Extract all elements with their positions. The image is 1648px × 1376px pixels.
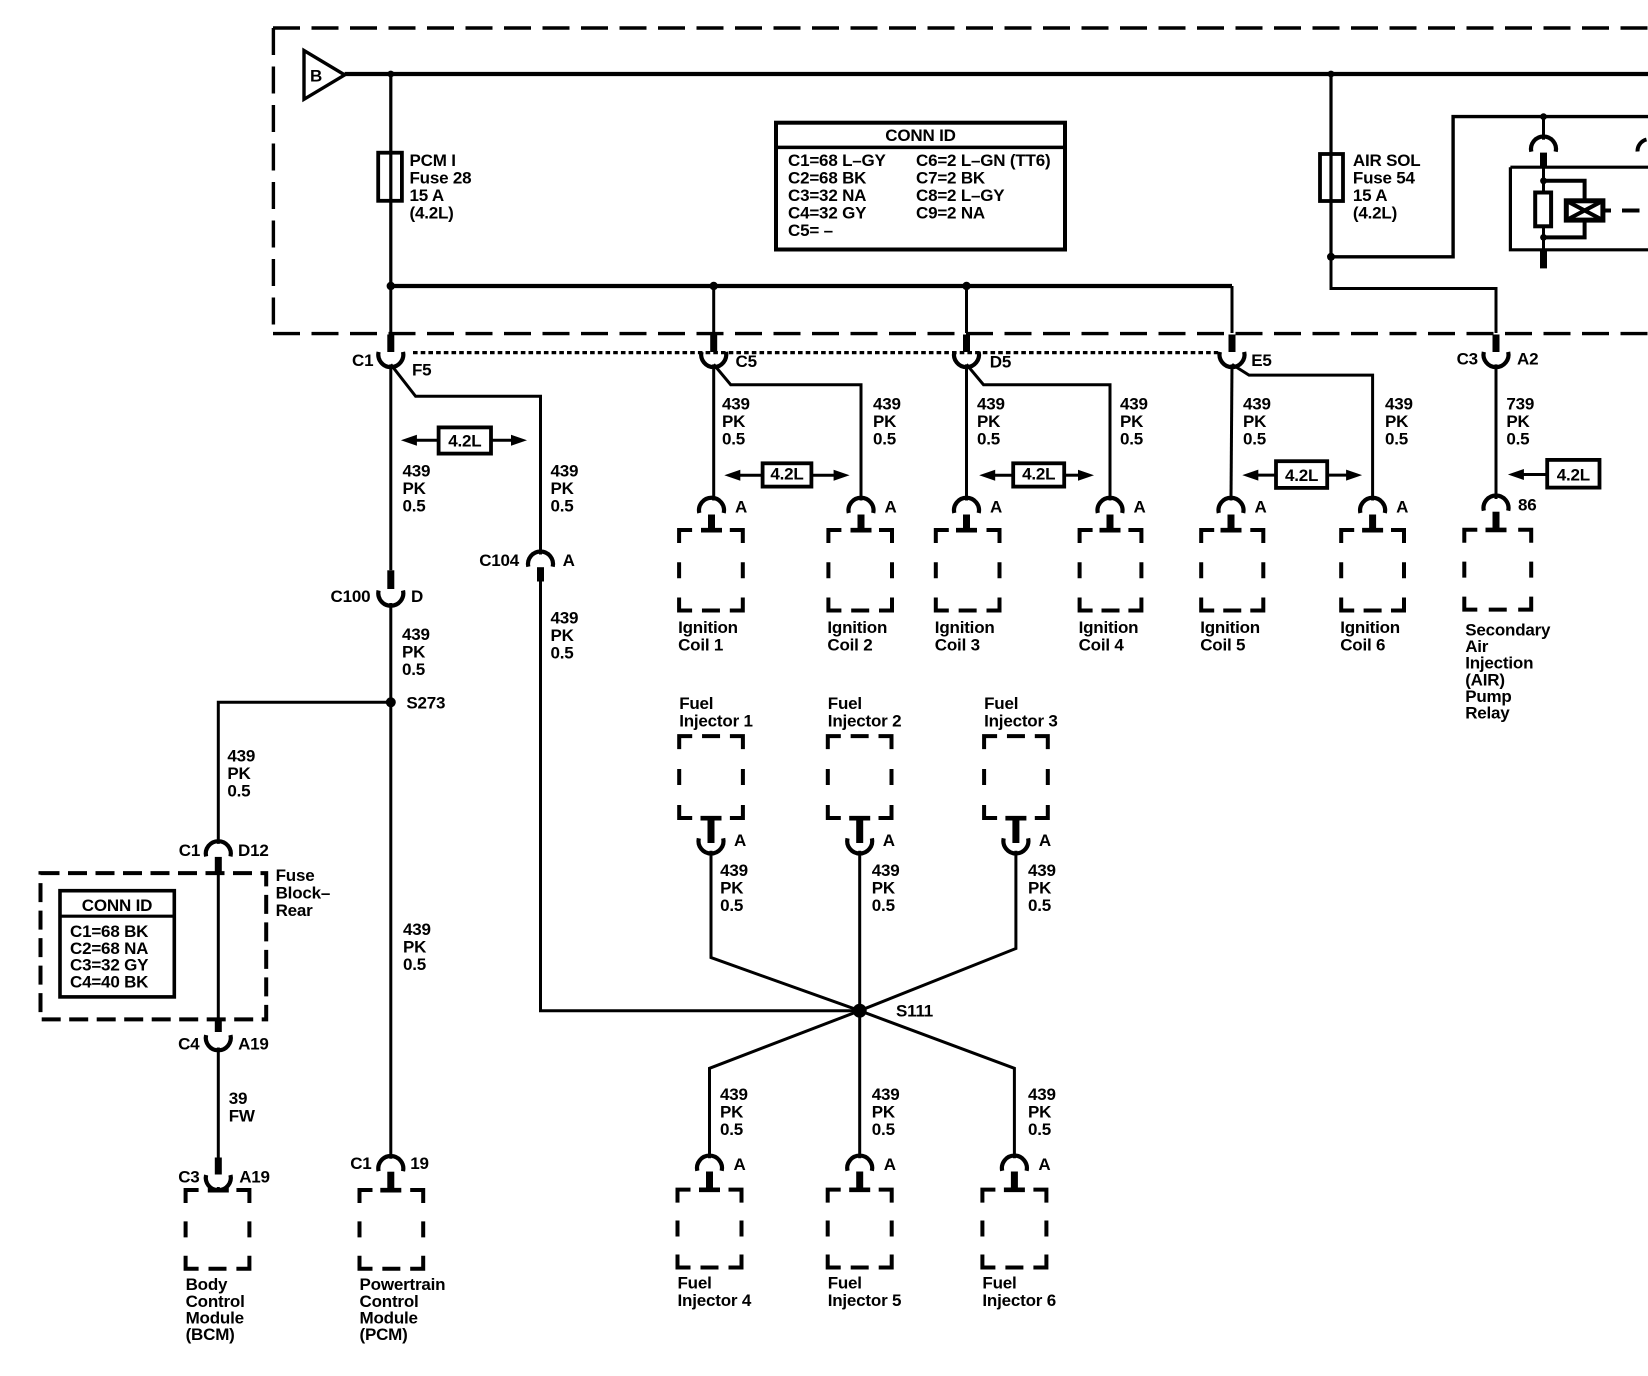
svg-text:0.5: 0.5 xyxy=(403,955,426,974)
svg-text:C3=32 NA: C3=32 NA xyxy=(788,186,866,205)
connector pin A at ignition coil 5 xyxy=(1218,498,1266,517)
svg-text:15 A: 15 A xyxy=(410,186,444,205)
svg-text:PK: PK xyxy=(977,412,1001,431)
label Fuel Injector 2 xyxy=(828,694,902,731)
wire label 439 PK 0.5 (coil 6) xyxy=(1385,395,1413,449)
svg-text:439: 439 xyxy=(402,625,430,644)
svg-text:Fuel: Fuel xyxy=(828,694,862,713)
svg-text:(PCM): (PCM) xyxy=(360,1325,408,1344)
svg-text:C4=32 GY: C4=32 GY xyxy=(788,204,867,223)
stub below fuel injector 3 xyxy=(1012,818,1019,843)
svg-text:Ignition: Ignition xyxy=(827,618,887,637)
svg-text:439: 439 xyxy=(403,462,431,481)
wire 439 PK S111 to fuel injector 6 xyxy=(860,1011,1015,1158)
svg-text:Fuse 28: Fuse 28 xyxy=(410,169,472,188)
svg-text:Injector 4: Injector 4 xyxy=(678,1291,752,1310)
svg-text:Ignition: Ignition xyxy=(935,618,995,637)
wire label 439 PK 0.5 (injector 2) xyxy=(872,861,900,915)
svg-text:Coil 3: Coil 3 xyxy=(935,635,980,654)
svg-text:PK: PK xyxy=(1243,412,1267,431)
wire: drop to C5 xyxy=(712,286,715,333)
svg-text:PK: PK xyxy=(720,1102,744,1121)
svg-text:0.5: 0.5 xyxy=(227,782,250,801)
svg-text:PK: PK xyxy=(720,878,744,897)
wire label 439 PK 0.5 (right of C1 drop) xyxy=(551,462,579,516)
svg-text:A: A xyxy=(1039,831,1051,850)
svg-text:4.2L: 4.2L xyxy=(1557,466,1590,485)
svg-text:A2: A2 xyxy=(1517,350,1538,369)
wire: drop to PCM I fuse and internal bus xyxy=(389,74,392,286)
label Ignition Coil 5 xyxy=(1200,618,1260,654)
svg-text:A: A xyxy=(885,498,897,517)
connector C100 / D xyxy=(331,587,424,606)
wire label 439 PK 0.5 (coil 5) xyxy=(1243,395,1271,449)
underhood fuse block (dashed enclosure) xyxy=(273,28,1648,334)
svg-text:0.5: 0.5 xyxy=(1120,430,1143,449)
stub into fuse block rear xyxy=(215,857,222,874)
wire 739 PK from C3/A2 to relay pin 86 xyxy=(1495,364,1498,499)
svg-text:C1: C1 xyxy=(350,1154,371,1173)
wire label 439 PK 0.5 (injector 1) xyxy=(720,861,748,915)
connector D5 xyxy=(954,352,1011,372)
wire: drop to E5 xyxy=(1231,286,1234,333)
wire: drop to AIR SOL fuse xyxy=(1329,74,1332,257)
wire label 439 PK 0.5 (coil 1) xyxy=(722,395,750,449)
svg-text:0.5: 0.5 xyxy=(551,497,574,516)
connector C5 xyxy=(701,352,757,371)
wire: relay coil branch vertical xyxy=(1542,167,1545,250)
wire 439 PK fuel injector 1 to S111 xyxy=(711,851,860,1011)
svg-text:439: 439 xyxy=(872,1085,900,1104)
svg-text:PK: PK xyxy=(722,412,746,431)
svg-text:Coil 5: Coil 5 xyxy=(1200,635,1245,654)
svg-text:439: 439 xyxy=(551,608,579,627)
svg-text:A: A xyxy=(883,831,895,850)
svg-text:A: A xyxy=(1396,498,1408,517)
connector C104 / A xyxy=(479,551,574,570)
connector pin A at ignition coil 6 xyxy=(1360,498,1408,517)
wire label 439 PK 0.5 (PCM drop) xyxy=(403,920,431,974)
junction on feed bus at PCM I fuse xyxy=(387,71,394,78)
connector C3 / A2 xyxy=(1457,350,1539,369)
svg-text:E5: E5 xyxy=(1251,351,1271,370)
wire 439 PK from S273 to PCM xyxy=(389,702,392,1158)
splice S111 xyxy=(853,1002,933,1021)
stub into relay box xyxy=(1540,153,1547,168)
label Fuel Injector 1 xyxy=(679,694,753,731)
svg-text:PK: PK xyxy=(1028,1102,1052,1121)
wire 439 PK from C5 to ignition coil 1 xyxy=(712,364,715,500)
svg-text:19: 19 xyxy=(410,1154,429,1173)
svg-text:15 A: 15 A xyxy=(1353,186,1387,205)
svg-text:39: 39 xyxy=(229,1089,248,1108)
dashed lead from solenoid to page edge xyxy=(1603,209,1640,213)
svg-text:(BCM): (BCM) xyxy=(186,1325,235,1344)
svg-text:0.5: 0.5 xyxy=(872,1120,895,1139)
svg-text:PK: PK xyxy=(873,412,897,431)
connector C4 / A19 xyxy=(178,1035,269,1054)
stub into ignition coil 5 xyxy=(1228,515,1235,532)
svg-text:4.2L: 4.2L xyxy=(1022,465,1055,484)
svg-text:PK: PK xyxy=(1385,412,1409,431)
svg-text:C3: C3 xyxy=(1457,350,1478,369)
connector C1 / F5 xyxy=(352,351,431,380)
svg-text:C2=68 BK: C2=68 BK xyxy=(788,169,867,188)
svg-text:PK: PK xyxy=(551,626,575,645)
wire label 439 PK 0.5 (coil 3) xyxy=(977,395,1005,449)
label Ignition Coil 3 xyxy=(935,618,995,654)
svg-text:PK: PK xyxy=(1028,878,1052,897)
ignition coil 2 (dashed box) xyxy=(828,530,892,611)
svg-text:PK: PK xyxy=(403,479,427,498)
fuel injector 5 (dashed box) xyxy=(828,1190,892,1268)
svg-text:PK: PK xyxy=(872,878,896,897)
stub at connector C3 xyxy=(215,1158,222,1175)
svg-text:0.5: 0.5 xyxy=(1028,1120,1051,1139)
label Fuel Injector 5 xyxy=(828,1274,902,1310)
svg-text:0.5: 0.5 xyxy=(873,430,896,449)
svg-text:439: 439 xyxy=(403,920,431,939)
svg-text:PCM I: PCM I xyxy=(410,151,456,170)
svg-text:A19: A19 xyxy=(239,1168,270,1187)
svg-text:(4.2L): (4.2L) xyxy=(1353,204,1397,223)
svg-text:439: 439 xyxy=(551,462,579,481)
fuel injector 2 (dashed box) xyxy=(828,736,892,818)
label Secondary Air Injection (AIR) Pump Relay xyxy=(1465,621,1551,723)
svg-text:0.5: 0.5 xyxy=(722,430,745,449)
ignition coil 5 (dashed box) xyxy=(1201,530,1263,611)
wire 439 PK from D5 to ignition coil 3 xyxy=(965,364,968,500)
wire: drop to C1 F5 xyxy=(389,286,392,333)
wire 439 PK from C104 to S111 xyxy=(541,582,860,1011)
stub into ignition coil 2 xyxy=(858,515,865,532)
connector pin A at ignition coil 1 xyxy=(699,498,747,517)
svg-text:PK: PK xyxy=(402,643,426,662)
connector pin A at ignition coil 2 xyxy=(849,498,897,517)
wire label 439 PK 0.5 (injector 4) xyxy=(720,1085,748,1139)
svg-text:F5: F5 xyxy=(412,361,431,380)
ignition coil 4 (dashed box) xyxy=(1080,530,1142,611)
svg-text:Coil 2: Coil 2 xyxy=(827,635,872,654)
svg-text:Fuel: Fuel xyxy=(982,1274,1016,1293)
svg-text:Fuse: Fuse xyxy=(276,866,315,885)
connector pin A at fuel injector 1 xyxy=(699,831,747,854)
svg-text:439: 439 xyxy=(1028,861,1056,880)
svg-text:D5: D5 xyxy=(990,353,1011,372)
svg-text:CONN ID: CONN ID xyxy=(82,896,152,915)
wire label 739 PK 0.5 (AIR pump relay) xyxy=(1506,395,1534,449)
wire: branch to relay solenoid coil xyxy=(1544,181,1585,201)
engine size tag 4.2L (coils 3-4) xyxy=(979,463,1094,486)
label Fuse Block-Rear xyxy=(276,866,331,920)
svg-text:PK: PK xyxy=(1120,412,1144,431)
stub at connector C100 xyxy=(387,570,394,589)
CONN ID table (fuse block rear) xyxy=(60,891,174,997)
svg-text:A19: A19 xyxy=(238,1035,269,1054)
wire 439 PK branch from C1 to C104 xyxy=(391,364,541,554)
wire: battery feed bus xyxy=(345,72,1648,76)
svg-text:Coil 1: Coil 1 xyxy=(678,635,723,654)
svg-text:C3: C3 xyxy=(178,1168,199,1187)
connector at AIR pump relay coil pin xyxy=(1531,136,1556,151)
svg-text:439: 439 xyxy=(1243,395,1271,414)
svg-text:C6=2 L–GN (TT6): C6=2 L–GN (TT6) xyxy=(916,151,1050,170)
svg-text:0.5: 0.5 xyxy=(403,497,426,516)
relay solenoid coil (valve symbol) xyxy=(1566,201,1603,220)
fuel injector 4 (dashed box) xyxy=(678,1190,742,1268)
svg-text:(4.2L): (4.2L) xyxy=(410,204,454,223)
svg-text:CONN ID: CONN ID xyxy=(885,126,955,145)
svg-text:4.2L: 4.2L xyxy=(770,465,803,484)
svg-text:C4=40 BK: C4=40 BK xyxy=(70,973,149,992)
svg-text:439: 439 xyxy=(1028,1085,1056,1104)
svg-text:439: 439 xyxy=(977,395,1005,414)
svg-text:A: A xyxy=(735,498,747,517)
label Ignition Coil 1 xyxy=(678,618,738,654)
wire 439 PK from E5 to ignition coil 5 xyxy=(1231,364,1232,500)
svg-text:Injector 6: Injector 6 xyxy=(982,1291,1056,1310)
stub below fuel injector 1 xyxy=(708,818,715,843)
stub: relay output below box xyxy=(1540,250,1547,269)
svg-text:PK: PK xyxy=(872,1102,896,1121)
stub below fuel injector 2 xyxy=(856,818,863,843)
svg-text:0.5: 0.5 xyxy=(1028,896,1051,915)
svg-text:739: 739 xyxy=(1506,395,1534,414)
svg-text:4.2L: 4.2L xyxy=(1285,466,1318,485)
stub at connector C5 xyxy=(710,335,717,353)
svg-text:439: 439 xyxy=(1120,395,1148,414)
svg-text:Fuel: Fuel xyxy=(828,1274,862,1293)
connector E5 xyxy=(1220,351,1272,370)
relay resistor xyxy=(1535,193,1551,227)
svg-text:Fuse 54: Fuse 54 xyxy=(1353,169,1416,188)
svg-text:S273: S273 xyxy=(406,694,445,713)
stub below C104 xyxy=(537,567,544,581)
connector pin A at fuel injector 6 xyxy=(1002,1155,1051,1174)
svg-text:AIR SOL: AIR SOL xyxy=(1353,151,1421,170)
svg-text:C4: C4 xyxy=(178,1035,200,1054)
junction internal bus at C1 drop xyxy=(387,282,395,290)
connector C1 / 19 xyxy=(350,1154,429,1173)
wire: AIR SOL fuse output to connector C3/A2 xyxy=(1331,257,1496,333)
partial connector at page edge xyxy=(1637,140,1646,152)
wire label 39 FW xyxy=(229,1089,256,1126)
svg-text:C8=2 L–GY: C8=2 L–GY xyxy=(916,186,1005,205)
junction on relay feed line xyxy=(1540,113,1547,120)
svg-text:Ignition: Ignition xyxy=(678,618,738,637)
svg-text:439: 439 xyxy=(720,861,748,880)
svg-text:Rear: Rear xyxy=(276,901,314,920)
splice S273 xyxy=(386,694,446,713)
svg-text:0.5: 0.5 xyxy=(1385,430,1408,449)
svg-text:0.5: 0.5 xyxy=(720,1120,743,1139)
svg-text:Ignition: Ignition xyxy=(1200,618,1260,637)
wire 439 PK S111 to fuel injector 5 xyxy=(858,1011,861,1158)
wire label 439 PK 0.5 (injector 5) xyxy=(872,1085,900,1139)
svg-text:A: A xyxy=(734,1155,746,1174)
svg-text:D: D xyxy=(411,587,423,606)
svg-text:C1: C1 xyxy=(179,841,200,860)
engine size tag 4.2L (coils 1-2) xyxy=(724,463,849,486)
svg-text:439: 439 xyxy=(1385,395,1413,414)
wire 439 PK from C5 to ignition coil 2 xyxy=(714,364,861,500)
fuse AIR SOL Fuse 54 xyxy=(1320,154,1343,201)
engine size tag 4.2L (AIR pump relay) xyxy=(1508,460,1600,488)
stub at connector C4 xyxy=(215,1020,222,1032)
wire label 439 PK 0.5 (below C100) xyxy=(402,625,430,679)
AIR pump relay internal box (cut off at page edge) xyxy=(1510,167,1648,250)
engine size tag 4.2L (coils 5-6) xyxy=(1242,461,1362,488)
wire 439 PK from C1 to C100 xyxy=(389,364,392,570)
wire label 439 PK 0.5 (coil 2) xyxy=(873,395,901,449)
svg-text:C9=2 NA: C9=2 NA xyxy=(916,204,985,223)
connector pin 86 at AIR pump relay xyxy=(1484,495,1537,514)
wire label 439 PK 0.5 (injector 3) xyxy=(1028,861,1056,915)
fuel injector 1 (dashed box) xyxy=(679,736,743,818)
stub into fuel injector 4 xyxy=(706,1172,713,1192)
connector pin A at fuel injector 5 xyxy=(847,1155,896,1174)
stub into ignition coil 1 xyxy=(708,515,715,532)
stub into fuel injector 6 xyxy=(1011,1172,1018,1192)
svg-text:439: 439 xyxy=(873,395,901,414)
svg-text:Fuel: Fuel xyxy=(678,1274,712,1293)
internal bus in fuse block xyxy=(391,284,1232,288)
svg-text:C100: C100 xyxy=(331,587,371,606)
wire label 439 PK 0.5 (left branch) xyxy=(227,747,255,801)
svg-text:A: A xyxy=(1038,1155,1050,1174)
svg-text:D12: D12 xyxy=(238,841,269,860)
label PCM I Fuse 28 15 A (4.2L) xyxy=(410,151,472,223)
stub into AIR pump relay xyxy=(1493,512,1500,531)
fuel injector 3 (dashed box) xyxy=(984,736,1048,818)
svg-text:0.5: 0.5 xyxy=(977,430,1000,449)
connector pin A at fuel injector 4 xyxy=(697,1155,746,1174)
svg-text:Fuel: Fuel xyxy=(679,694,713,713)
svg-text:439: 439 xyxy=(872,861,900,880)
wire 439 PK fuel injector 2 to S111 xyxy=(858,851,861,1011)
svg-text:A: A xyxy=(1255,498,1267,517)
wire 39 FW from C4 to BCM xyxy=(217,1048,220,1158)
svg-text:0.5: 0.5 xyxy=(1243,430,1266,449)
connector pin A at ignition coil 4 xyxy=(1098,498,1146,517)
connector pin A at ignition coil 3 xyxy=(954,498,1002,517)
fuel injector 6 (dashed box) xyxy=(982,1190,1046,1268)
svg-text:4.2L: 4.2L xyxy=(448,432,481,451)
svg-text:0.5: 0.5 xyxy=(551,643,574,662)
junction on feed bus at AIR SOL fuse xyxy=(1328,71,1335,78)
CONN ID table (underhood fuse block) xyxy=(776,123,1065,250)
wire 439 PK S111 to fuel injector 4 xyxy=(710,1011,860,1158)
stub into fuel injector 5 xyxy=(856,1172,863,1192)
stub into ignition coil 3 xyxy=(963,515,970,532)
wire into BCM xyxy=(217,1187,220,1191)
svg-text:0.5: 0.5 xyxy=(872,896,895,915)
svg-text:Fuel: Fuel xyxy=(984,694,1018,713)
wire 439 PK from S273 to fuse block rear xyxy=(218,702,390,844)
connector pin A at fuel injector 2 xyxy=(847,831,895,854)
label Fuel Injector 6 xyxy=(982,1274,1056,1310)
wire label 439 PK 0.5 (injector 6) xyxy=(1028,1085,1056,1139)
stub into ignition coil 4 xyxy=(1107,515,1114,532)
junction internal bus at D5 drop xyxy=(962,282,970,290)
svg-text:C5= –: C5= – xyxy=(788,221,833,240)
svg-text:FW: FW xyxy=(229,1107,256,1126)
svg-text:B: B xyxy=(310,67,322,86)
stub at connector C1 xyxy=(387,335,394,353)
junction above relay resistor xyxy=(1540,177,1547,184)
Fuse Block - Rear (dashed box) xyxy=(41,873,267,1019)
label Ignition Coil 6 xyxy=(1340,618,1400,654)
svg-text:C1: C1 xyxy=(352,351,373,370)
ignition coil 6 (dashed box) xyxy=(1341,530,1404,611)
svg-text:439: 439 xyxy=(722,395,750,414)
Secondary Air Injection (AIR) Pump Relay (dashed box) xyxy=(1464,530,1531,610)
junction below AIR SOL fuse xyxy=(1327,253,1335,261)
svg-text:0.5: 0.5 xyxy=(1506,430,1529,449)
engine size tag 4.2L (C1 branch) xyxy=(401,427,527,453)
svg-text:A: A xyxy=(990,498,1002,517)
harness dotted line xyxy=(413,351,1218,354)
label Powertrain Control Module (PCM) xyxy=(360,1275,446,1344)
svg-text:Injector 1: Injector 1 xyxy=(679,711,753,730)
stub at connector C3/A2 xyxy=(1493,335,1500,353)
svg-text:C7=2 BK: C7=2 BK xyxy=(916,169,986,188)
wire label 439 PK 0.5 (below C104) xyxy=(551,608,579,662)
wire: AIR SOL fuse to relay feed line xyxy=(1331,117,1648,257)
connector pin A at fuel injector 3 xyxy=(1003,831,1051,854)
fuse PCM I Fuse 28 xyxy=(378,153,402,201)
svg-text:Ignition: Ignition xyxy=(1340,618,1400,637)
svg-text:Coil 4: Coil 4 xyxy=(1079,635,1125,654)
svg-text:A: A xyxy=(1134,498,1146,517)
stub at connector E5 xyxy=(1229,335,1236,353)
svg-text:Injector 3: Injector 3 xyxy=(984,711,1058,730)
wire: relay feed drop xyxy=(1542,117,1545,140)
svg-text:Ignition: Ignition xyxy=(1079,618,1139,637)
label AIR SOL Fuse 54 15 A (4.2L) xyxy=(1353,151,1421,223)
svg-text:A: A xyxy=(734,831,746,850)
wire 439 PK from D5 to ignition coil 4 xyxy=(967,364,1111,500)
svg-text:PK: PK xyxy=(1506,412,1530,431)
svg-text:A: A xyxy=(884,1155,896,1174)
svg-text:S111: S111 xyxy=(896,1002,933,1021)
svg-text:PK: PK xyxy=(227,764,251,783)
power feed arrow B xyxy=(304,51,345,100)
svg-text:439: 439 xyxy=(720,1085,748,1104)
junction internal bus at C5 drop xyxy=(710,282,718,290)
wire label 439 PK 0.5 (coil 4) xyxy=(1120,395,1148,449)
svg-text:439: 439 xyxy=(227,747,255,766)
stub into ignition coil 6 xyxy=(1369,515,1376,532)
connector C1 / D12 xyxy=(179,841,269,860)
svg-text:86: 86 xyxy=(1518,496,1537,515)
svg-text:Relay: Relay xyxy=(1465,704,1510,723)
wire inside fuse block rear xyxy=(217,874,220,1020)
svg-text:PK: PK xyxy=(403,938,427,957)
svg-text:0.5: 0.5 xyxy=(720,896,743,915)
svg-text:Block–: Block– xyxy=(276,884,331,903)
wire 439 PK from E5 to ignition coil 6 xyxy=(1232,364,1373,500)
stub into PCM xyxy=(387,1172,394,1191)
ignition coil 1 (dashed box) xyxy=(679,530,743,611)
junction below relay resistor xyxy=(1540,234,1547,241)
svg-text:C104: C104 xyxy=(479,551,520,570)
wire: drop to D5 xyxy=(965,286,968,333)
label Ignition Coil 4 xyxy=(1079,618,1139,654)
ignition coil 3 (dashed box) xyxy=(936,530,1000,611)
connector C3 / A19 xyxy=(178,1168,270,1191)
svg-text:C1=68 L–GY: C1=68 L–GY xyxy=(788,151,887,170)
